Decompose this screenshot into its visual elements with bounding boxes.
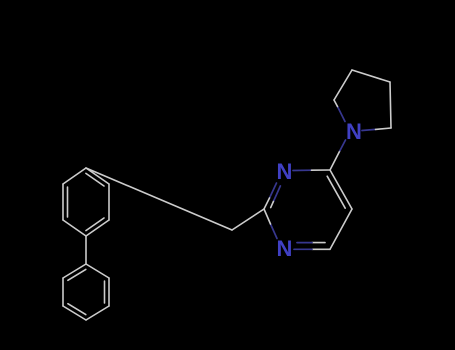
- bond N1-C6: [293, 169, 330, 172]
- bond C6-N(pyrrolidine): [330, 140, 346, 170]
- bond Cc-Cd pyrrolidine: [390, 82, 391, 128]
- benzene ring 1: [63, 168, 109, 236]
- bond Cb-Cc pyrrolidine: [352, 70, 390, 82]
- svg-text:N: N: [277, 159, 293, 184]
- bond C2=N1 double: [264, 183, 280, 209]
- bond biphenyl link: [85, 236, 87, 264]
- bond C5-C4: [330, 209, 352, 249]
- benzene ring 2: [63, 264, 109, 320]
- bond N3-C2: [264, 209, 277, 239]
- bond C4=N3 double: [294, 243, 330, 250]
- bond N-Ca pyrrolidine: [334, 100, 345, 122]
- bond long chain to ring: [86, 168, 232, 230]
- bond C2-CH chain: [232, 209, 264, 230]
- bond Cd-N pyrrolidine: [362, 128, 391, 131]
- svg-text:N: N: [346, 119, 362, 144]
- svg-text:N: N: [277, 236, 293, 261]
- bond Ca-Cb pyrrolidine: [334, 70, 352, 100]
- bond C6=C5 double: [327, 170, 352, 209]
